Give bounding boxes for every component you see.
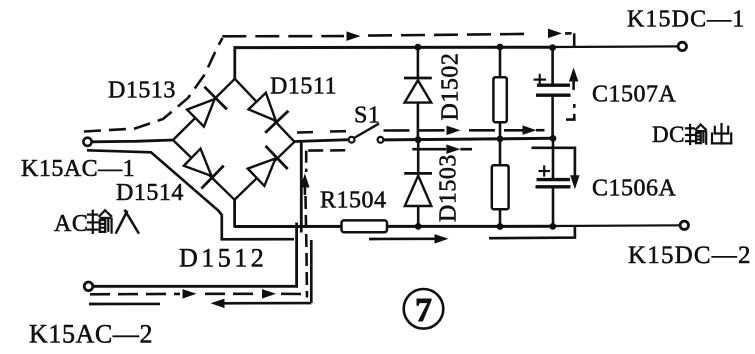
node top rail / resistor [497,44,504,51]
wire top rail thin to terminal [554,45,679,48]
bridge edge bottom-right (wire) [235,142,295,200]
wire drop from right-node wire down to R1504 node [300,141,303,233]
diode D1503 [404,173,432,206]
diode D1512 [248,146,288,186]
terminal K15DC-1 [678,42,686,50]
wire bridge right node to S1 [295,140,349,142]
node bottom rail / C1506A [549,223,556,230]
flow path dashed: riser lower part [306,196,308,298]
diode D1513 [187,87,227,127]
flow arrow right on top dashed run [347,31,361,41]
flow path dashed: mid rail run 2 [469,129,523,132]
terminal K15AC-2 [84,282,93,291]
flow path dashed: AC-2 run 2 [205,292,260,295]
svg-text:D1512: D1512 [179,244,267,273]
diode D1514 [184,149,224,189]
svg-text:R1504: R1504 [320,188,387,214]
wire C1507A top lead [551,47,554,85]
wire K15AC-2 to bottom rail riser [93,223,297,287]
wire resistor chain bottom lead [499,209,502,226]
flow arrow right below bottom rail [435,234,449,244]
flow arrow up beside C1507A [572,76,575,90]
flow path dashed: mid rail run 3 [536,129,545,132]
flow path solid: below K15AC-2 wire with left arrow [224,302,311,305]
svg-text:K15DC—2: K15DC—2 [628,242,752,269]
terminal K15AC-1 [83,138,91,146]
wire D1503 bottom lead [417,206,420,226]
wire mid rail S1 to capacitor midpoint [384,138,554,140]
flow arrow right below mid rail [446,144,460,154]
node bottom rail / D1503 [415,223,422,230]
flow path dashed: above wire bridge-right to S1 [297,131,318,134]
flow path dashed: tail after arrow [565,32,572,35]
flow path solid: K15AC-1 below wire and along D1514 edge [87,150,294,239]
wire bridge top node riser [233,46,236,80]
flow path dashed: under S1 [308,149,351,152]
plus sign C1507A [534,74,547,86]
node top rail / D1502 [415,44,422,51]
flow arrow down beside C1506A [570,175,580,189]
flow arrow right on AC-2 dashed 2 [262,289,276,299]
flow arrow right on mid rail dashed [447,126,461,136]
flow path dashed: top horizontal run 2 [368,34,530,36]
svg-text:D1511: D1511 [270,74,337,100]
flow path dashed: K15AC-1 up over bridge to top rail [84,38,223,132]
flow path solid: segment tail [460,148,472,151]
wire C1507A bottom lead [551,95,554,139]
figure number 7 circled [404,289,444,329]
flow path dashed: C1507A bypass vertical [566,104,574,120]
svg-text:DC: DC [652,122,685,147]
svg-text:D1503: D1503 [436,154,462,222]
svg-text:C1507A: C1507A [592,82,677,108]
flow arrow left on AC-2 solid run [211,299,225,309]
wire C1506A top lead [552,138,555,179]
flow path dashed: right of S1 along mid rail [384,129,449,132]
flow path solid: riser right of AC-2 corner [310,240,313,303]
node mid rail / resistors [497,136,504,143]
svg-text:AC: AC [54,211,88,237]
plus sign C1506A [539,165,551,176]
wire bridge bottom node drop [233,199,236,228]
resistor lower (bleeder) [492,165,509,209]
wire resistor chain middle leads [499,122,502,165]
node mid rail / D1502-D1503 [415,136,422,143]
flow arrow up on riser [304,182,307,195]
svg-text:K15DC—1: K15DC—1 [627,7,745,33]
svg-text:D1502: D1502 [438,53,464,121]
flow path dashed: corner down to top rail [573,33,576,47]
svg-text:C1506A: C1506A [592,176,677,202]
node bottom rail / resistor [497,223,504,230]
wire resistor chain top lead [499,47,502,77]
switch S1 [349,124,384,143]
wire C1506A bottom lead [552,187,555,227]
flow path dashed: riser beside drop wire [305,151,308,172]
svg-text:K15AC—1: K15AC—1 [21,156,135,182]
wire D1502 top lead [417,47,420,79]
svg-text:7: 7 [415,292,432,329]
bridge edge left-top (wire) [173,79,235,140]
bridge edge top-right (wire) [235,79,295,142]
flow path dashed: top horizontal run [222,35,344,38]
flow path solid: below bottom rail long run [369,237,435,240]
diode D1502 [404,78,432,103]
terminal K15DC-2 [680,221,688,229]
wire bottom rail [235,225,554,228]
wire D1503 top lead [417,139,420,174]
wire D1502 bottom lead [417,103,420,140]
flow path solid: below mid rail segment [412,148,446,151]
svg-text:D1514: D1514 [116,180,184,206]
flow arrow right on mid rail dashed 2 [523,125,537,134]
wire top rail (+) [234,46,555,49]
node mid rail / capacitors [550,135,557,142]
svg-text:D1513: D1513 [108,78,176,104]
wire K15AC-1 to bridge left node [92,140,173,142]
capacitor C1506A [536,180,571,187]
flow path solid: C1506A bypass [532,148,575,176]
resistor R1504 [342,220,388,232]
bridge edge left-bottom (wire) [173,140,235,200]
svg-text:S1: S1 [354,103,380,129]
svg-text:K15AC—2: K15AC—2 [29,320,153,349]
diode D1511 [249,93,289,133]
flow path dashed: along K15AC-2 wire [90,293,180,296]
resistor upper (bleeder) [493,77,506,122]
capacitor C1507A [536,85,571,95]
flow path solid: below bottom rail to C1506A riser [489,227,575,238]
flow arrow right on top dashed run 2 [548,29,562,38]
wire bottom rail thin to terminal [554,224,681,227]
flow path dashed: AC-2 run 3 [281,294,306,297]
flow arrow right on AC-2 dashed [183,289,197,299]
node top rail / C1507A [549,44,556,51]
